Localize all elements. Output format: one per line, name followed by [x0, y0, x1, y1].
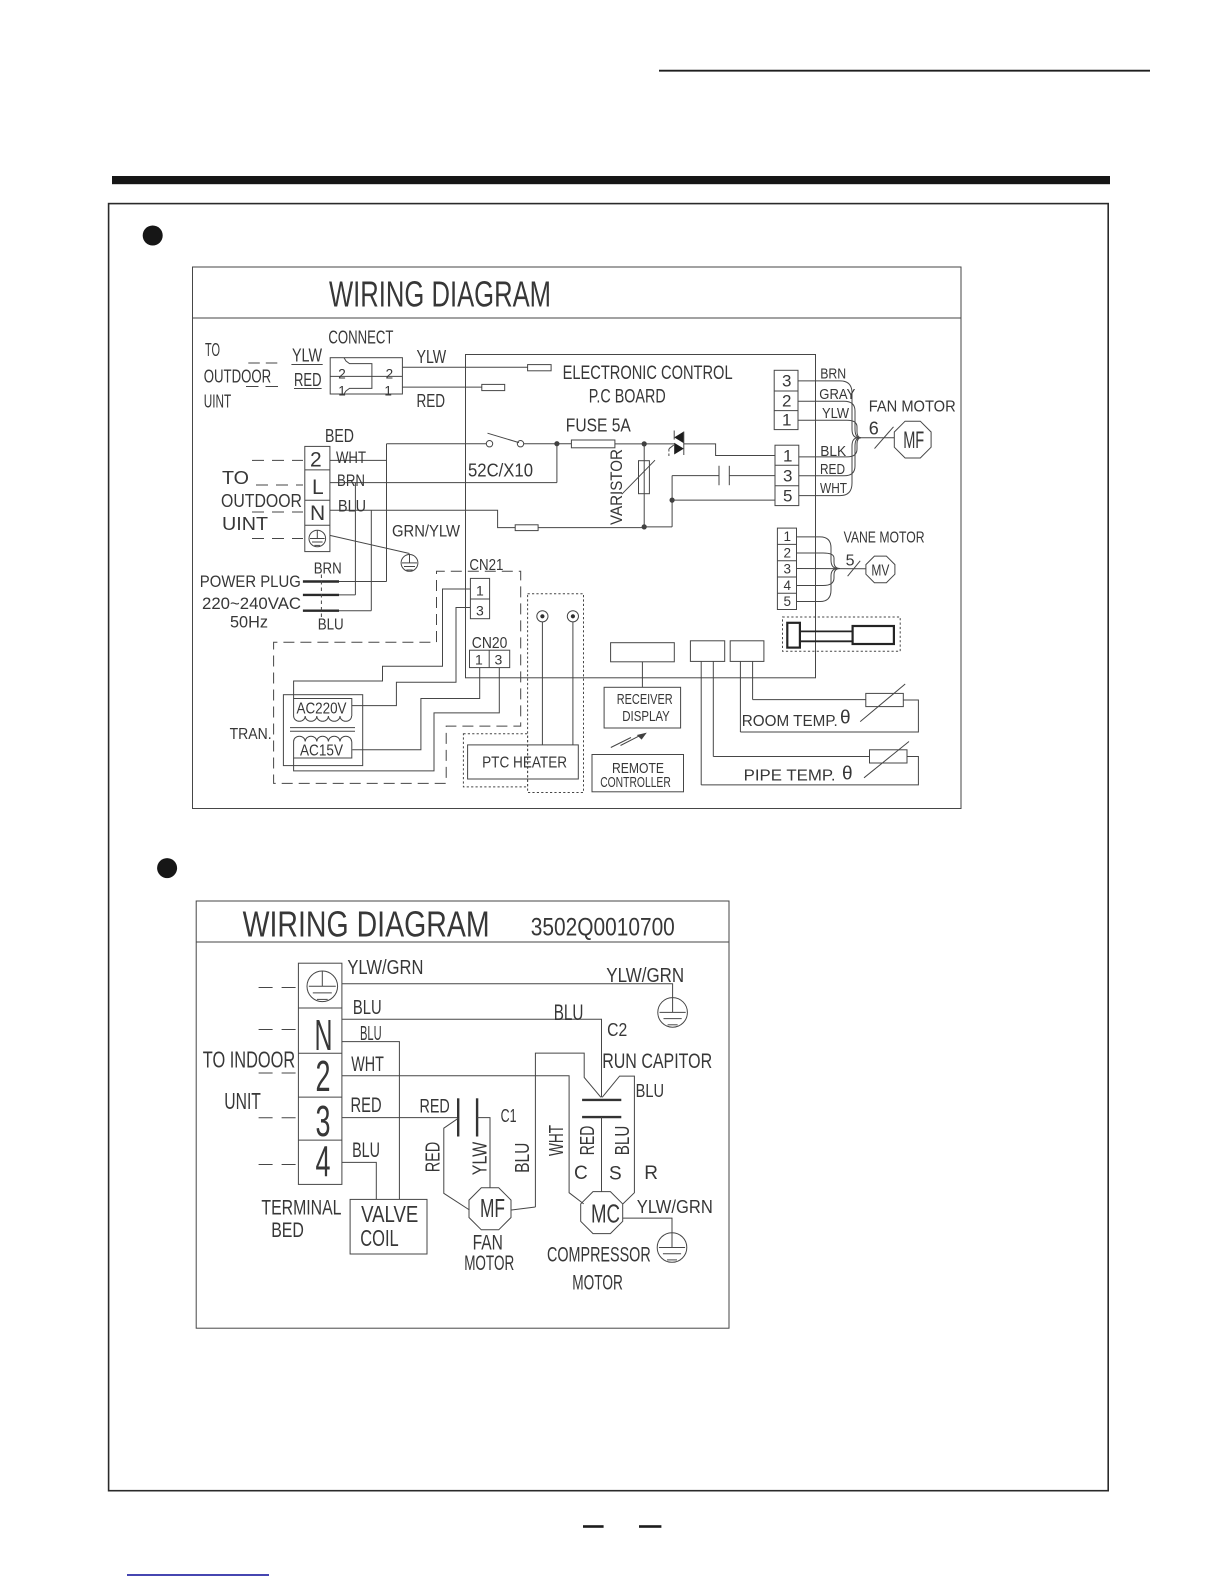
run capacitor C2 plates [582, 1100, 621, 1117]
node: TO OUTDOOR UINT (upper) dashed leads [248, 362, 280, 364]
wire prong2 to BRN riser [339, 483, 355, 595]
svg-text:MF: MF [480, 1193, 505, 1223]
connector CN vane (1-5) [777, 528, 796, 609]
connector CN (3/2/1) [774, 370, 798, 429]
svg-text:BLU: BLU [636, 1081, 664, 1101]
svg-text:3: 3 [476, 603, 484, 619]
wire CN20 pin1 to transformer secondary right [352, 668, 479, 750]
svg-text:2: 2 [386, 367, 394, 382]
wire node to connector pin 5 [672, 499, 775, 501]
earth ground symbol right top [658, 998, 688, 1028]
footer dash 2 [639, 1525, 661, 1528]
svg-text:BRN: BRN [314, 561, 342, 578]
receiver display connector block [611, 643, 675, 662]
svg-text:4: 4 [784, 578, 792, 593]
svg-text:TO: TO [205, 340, 220, 360]
svg-text:RED: RED [577, 1126, 599, 1156]
element connecting bars [800, 630, 853, 632]
svg-text:BLU: BLU [554, 1000, 584, 1025]
varistor RV1 [622, 444, 655, 527]
svg-text:COMPRESSOR: COMPRESSOR [547, 1244, 651, 1267]
svg-text:N: N [310, 502, 325, 525]
remote signal zigzag arrow [611, 733, 647, 748]
svg-text:UNIT: UNIT [224, 1088, 261, 1114]
svg-text:2: 2 [338, 367, 346, 382]
svg-text:CN20: CN20 [472, 635, 508, 652]
dash-dot boundary transformer / CN21 region [274, 571, 521, 783]
ground symbol in BED terminal [309, 530, 326, 547]
diagram 1 title separator [193, 317, 962, 319]
element small block [787, 623, 800, 648]
wire CN21 pin1 to transformer primary left [294, 589, 471, 699]
wire vane 3 [797, 568, 867, 570]
wire RED connector to PC board [402, 386, 481, 388]
svg-text:1: 1 [782, 411, 791, 430]
svg-text:1: 1 [384, 384, 392, 399]
earth ground symbol right bottom [657, 1233, 687, 1263]
capacitor C1 on pin 3 line [719, 466, 729, 485]
svg-text:MC: MC [591, 1199, 620, 1229]
svg-text:YLW: YLW [470, 1142, 492, 1175]
svg-text:BRN: BRN [820, 366, 846, 383]
fan motor slash (6 conductors) [875, 427, 894, 449]
wire WHT fan [799, 438, 858, 496]
svg-text:WHT: WHT [336, 448, 366, 467]
svg-text:6: 6 [869, 419, 879, 439]
diode/TVS D1 [669, 431, 684, 457]
svg-text:θ: θ [842, 764, 853, 785]
receiver display box [604, 687, 681, 728]
transformer primary winding AC220V [294, 699, 352, 722]
wire BRN fan [798, 381, 858, 438]
wire prong3 to BLU riser [339, 510, 371, 610]
fuse F1 FUSE 5A [571, 440, 615, 448]
svg-text:ROOM TEMP.: ROOM TEMP. [742, 713, 838, 730]
fan motor MF symbol [894, 421, 931, 458]
svg-text:RED: RED [420, 1096, 450, 1117]
svg-text:BLU: BLU [353, 997, 382, 1019]
vane motor MV symbol [866, 556, 895, 583]
PC board U1 outline [466, 355, 816, 678]
svg-text:BRN: BRN [337, 471, 365, 490]
junction dot pin5 node [670, 498, 675, 503]
svg-text:3: 3 [783, 467, 792, 486]
svg-text:WIRING DIAGRAM: WIRING DIAGRAM [243, 904, 490, 945]
wire YLW connector to PC board [402, 366, 527, 368]
diagram 1 frame [193, 267, 962, 809]
svg-text:BLK: BLK [820, 443, 846, 460]
svg-text:TERMINAL: TERMINAL [261, 1197, 341, 1220]
wire CN21 pin3 to transformer primary right [352, 608, 471, 706]
wire C1 left plate to fan RED lead [444, 1118, 470, 1210]
svg-text:BLU: BLU [318, 617, 344, 634]
wire receiver block to display [641, 662, 643, 688]
svg-text:4: 4 [316, 1138, 331, 1187]
wire YLW fan [798, 420, 861, 437]
svg-text:RUN CAPITOR: RUN CAPITOR [602, 1050, 712, 1073]
svg-text:1: 1 [476, 583, 484, 599]
diagram 2 frame [196, 901, 729, 1328]
wire LED1 to PTC heater [541, 622, 543, 745]
svg-text:R: R [644, 1163, 658, 1184]
wire WHT 2 to compressor C [342, 1076, 584, 1204]
svg-text:RED: RED [351, 1094, 382, 1117]
svg-text:BLU: BLU [360, 1023, 382, 1045]
capacitor C1 plates [458, 1098, 477, 1136]
svg-text:C2: C2 [607, 1020, 627, 1040]
wire resistor to varistor bottom [538, 527, 644, 529]
wire BRN terminal L to riser [330, 482, 557, 484]
wire C1 right plate to fan YLW lead [477, 1118, 490, 1188]
svg-text:CONNECT: CONNECT [328, 328, 393, 348]
svg-text:COIL: COIL [360, 1225, 399, 1251]
remote controller box [592, 755, 684, 792]
svg-text:RECEIVER: RECEIVER [617, 692, 673, 708]
svg-text:PIPE TEMP.: PIPE TEMP. [744, 768, 836, 785]
wire RED 3 to capacitor C1 [342, 1117, 458, 1119]
fan motor MF symbol [469, 1188, 511, 1230]
svg-text:220~240VAC: 220~240VAC [202, 594, 301, 613]
svg-text:RED: RED [820, 461, 845, 478]
svg-text:P.C BOARD: P.C BOARD [589, 387, 666, 408]
svg-text:CN21: CN21 [469, 557, 503, 574]
wire BLU 4 to valve coil [342, 1162, 376, 1199]
svg-text:CONTROLLER: CONTROLLER [600, 775, 671, 791]
svg-text:1: 1 [338, 384, 346, 399]
svg-text:ELECTRONIC CONTROL: ELECTRONIC CONTROL [563, 363, 733, 384]
room temp connector block [690, 641, 724, 662]
svg-text:YLW/GRN: YLW/GRN [606, 965, 684, 987]
svg-text:GRAY: GRAY [819, 386, 855, 403]
wire room temp sensor loop [740, 661, 918, 732]
wire capacitor left leg [672, 475, 719, 477]
svg-text:2: 2 [784, 545, 792, 560]
wire RED lead underline [294, 388, 322, 390]
wire ground terminal to earth [330, 535, 410, 553]
junction dot varistor top [642, 441, 647, 446]
wire varistor bottom to cap leg [644, 526, 672, 528]
svg-text:BLU: BLU [352, 1139, 380, 1162]
svg-text:52C/X10: 52C/X10 [468, 461, 533, 481]
svg-text:3: 3 [782, 372, 791, 391]
svg-text:YLW/GRN: YLW/GRN [637, 1197, 713, 1217]
node: TO OUTDOOR UINT (lower) dashed leads [252, 459, 303, 461]
LED indicator 2 [567, 611, 578, 622]
svg-text:VANE MOTOR: VANE MOTOR [844, 529, 925, 546]
svg-text:MOTOR: MOTOR [572, 1271, 623, 1294]
svg-text:AC15V: AC15V [300, 743, 344, 760]
vane motor slash (5 conductors) [848, 561, 861, 576]
svg-text:BED: BED [271, 1219, 304, 1242]
wire WHT terminal 2 to switch riser [330, 459, 387, 461]
junction dot varistor bottom [642, 524, 647, 529]
wire cap leg down to pin5 node [671, 476, 673, 527]
svg-text:WHT: WHT [820, 480, 847, 497]
wire switch to fuse [524, 443, 572, 445]
LED indicator 1 [537, 611, 548, 622]
wire MC to earth [623, 1218, 672, 1233]
switch 52C/X10 [486, 433, 523, 447]
svg-text:YLW: YLW [292, 346, 322, 366]
power plug dashed axis [320, 575, 322, 618]
wire fan BLU lead to run capacitor [535, 1053, 601, 1207]
svg-text:FAN MOTOR: FAN MOTOR [869, 399, 956, 416]
svg-text:UINT: UINT [204, 392, 232, 412]
wire riser BRN [556, 444, 558, 483]
svg-text:TO: TO [222, 468, 249, 488]
svg-text:L: L [312, 476, 324, 499]
terminal block (indoor) [298, 963, 342, 1184]
resistor on YLW line [528, 365, 552, 371]
wire diode to connector pin 1 [684, 444, 775, 456]
svg-text:DISPLAY: DISPLAY [622, 709, 670, 725]
wire fan BLU lead lower diagonal [512, 1207, 536, 1210]
svg-text:OUTDOOR: OUTDOOR [221, 491, 302, 511]
svg-text:1: 1 [475, 652, 483, 668]
ground symbol in terminal [307, 971, 338, 1002]
svg-text:PTC HEATER: PTC HEATER [482, 755, 567, 772]
diagram 2 title separator [196, 941, 729, 943]
wire GRAY fan [798, 401, 860, 438]
svg-text:2: 2 [310, 449, 322, 472]
valve coil box [350, 1199, 427, 1254]
svg-text:C1: C1 [501, 1106, 517, 1126]
wire vane 2 [797, 553, 841, 569]
thermistor room temp [860, 684, 905, 722]
wire fan bundle to motor [860, 437, 894, 439]
svg-text:3: 3 [495, 652, 503, 668]
section title bar [112, 176, 1110, 184]
svg-text:YLW: YLW [417, 347, 447, 367]
svg-text:AC220V: AC220V [297, 701, 348, 718]
svg-text:5: 5 [783, 487, 792, 506]
svg-text:VALVE: VALVE [361, 1201, 418, 1227]
resistor on RED line [482, 384, 505, 390]
header rule top right [659, 70, 1150, 72]
svg-text:5: 5 [784, 594, 792, 609]
wire vane 4 [797, 569, 841, 586]
wire vane 5 [797, 569, 839, 602]
wire CN20 pin3 to transformer secondary left [294, 668, 500, 771]
svg-text:YLW/GRN: YLW/GRN [347, 957, 423, 979]
svg-text:OUTDOOR: OUTDOOR [204, 367, 272, 387]
PTC dotted enclosure [463, 734, 527, 787]
svg-text:WIRING DIAGRAM: WIRING DIAGRAM [329, 274, 551, 315]
bullet 1 [143, 226, 163, 246]
wire pipe temp sensor loop [701, 661, 918, 785]
wire WHT to switch 52C/X10 [387, 443, 487, 445]
footer dash 1 [583, 1525, 604, 1528]
wire prong1 extension [339, 581, 387, 583]
svg-text:TRAN.: TRAN. [230, 726, 272, 743]
svg-text:MOTOR: MOTOR [464, 1252, 514, 1275]
svg-text:θ: θ [840, 708, 851, 729]
wire YLW/GRN to earth [342, 984, 673, 998]
svg-text:WHT: WHT [351, 1053, 384, 1076]
connector CN20 [470, 650, 510, 667]
svg-text:3: 3 [784, 562, 792, 577]
svg-text:RED: RED [423, 1142, 445, 1172]
transformer secondary winding AC15V [294, 736, 352, 758]
compressor motor MC symbol [581, 1192, 623, 1234]
wire YLW lead underline [291, 364, 322, 366]
wire BLK fan [799, 438, 861, 457]
svg-text:YLW: YLW [822, 405, 850, 422]
svg-text:3502Q0010700: 3502Q0010700 [531, 914, 675, 942]
svg-text:50Hz: 50Hz [230, 613, 268, 632]
svg-text:5: 5 [846, 553, 855, 570]
wire BLU terminal N rightwards [330, 510, 515, 527]
wire fuse to varistor node [615, 443, 674, 445]
wire capacitor to connector pin 3 [729, 475, 775, 477]
pipe temp connector block [730, 641, 764, 662]
svg-text:BLU: BLU [612, 1126, 634, 1156]
power plug prong 1 [303, 580, 339, 582]
power plug prong 3 [303, 610, 339, 612]
svg-text:RED: RED [417, 391, 446, 411]
page frame [109, 204, 1109, 1491]
svg-text:FUSE 5A: FUSE 5A [566, 416, 631, 436]
wire compressor R BLU lead [602, 1076, 634, 1204]
connector CN21 [470, 578, 489, 618]
receiver display dotted enclosure [528, 594, 584, 793]
wire vane 1 [797, 537, 839, 569]
svg-text:2: 2 [316, 1052, 331, 1101]
junction dot BRN riser [554, 441, 559, 446]
wire LED2 to PTC heater [572, 622, 574, 745]
node: TO INDOOR UNIT dashed leads [259, 987, 297, 989]
svg-text:RED: RED [294, 370, 322, 390]
svg-text:1: 1 [783, 447, 792, 466]
connector CONNECT 2-pin plug [330, 358, 402, 394]
svg-text:C: C [574, 1163, 588, 1184]
wire RED fan [799, 438, 860, 476]
thermistor pipe temp [864, 742, 909, 778]
heat exchanger dotted box [783, 617, 901, 651]
svg-text:MF: MF [903, 427, 924, 454]
svg-text:WHT: WHT [546, 1125, 568, 1156]
svg-text:POWER PLUG: POWER PLUG [200, 572, 301, 591]
svg-text:TO INDOOR: TO INDOOR [203, 1047, 295, 1073]
wire BLU N to run capacitor [342, 1019, 602, 1097]
wire compressor S RED lead [601, 1117, 603, 1192]
transformer TRAN outline [283, 695, 362, 766]
terminal block BED [305, 446, 330, 551]
wire BLU N to valve coil [342, 1042, 400, 1200]
PC board right edge [815, 355, 817, 678]
svg-text:BED: BED [325, 426, 354, 446]
power plug prong 2 [303, 594, 339, 596]
svg-text:BLU: BLU [512, 1143, 534, 1173]
svg-text:S: S [609, 1164, 622, 1185]
element large block [853, 626, 894, 644]
svg-text:VARISTOR: VARISTOR [607, 449, 626, 525]
svg-text:2: 2 [782, 392, 791, 411]
svg-text:1: 1 [784, 529, 792, 544]
footer blue rule [127, 1574, 269, 1576]
connector CN (1/3/5) [775, 445, 799, 505]
svg-text:UINT: UINT [222, 514, 268, 534]
resistor on BLU line [515, 525, 538, 531]
svg-text:GRN/YLW: GRN/YLW [392, 522, 460, 541]
svg-text:BLU: BLU [338, 497, 366, 516]
bullet 2 [157, 858, 177, 878]
earth ground symbol GRN/YLW [401, 555, 418, 572]
svg-text:MV: MV [871, 563, 889, 580]
PTC heater box [468, 745, 579, 779]
wire riser WHT / plug prong 1 [386, 444, 388, 582]
transformer core [290, 728, 355, 732]
